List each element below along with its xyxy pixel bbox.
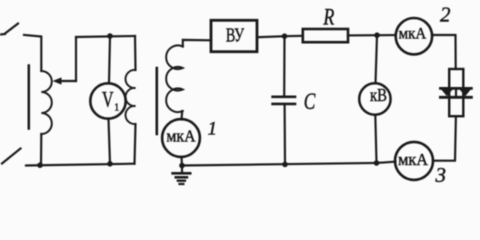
node B kilovoltmeter tap <box>374 32 380 38</box>
kilovoltmeter PV2 кВ <box>359 83 390 114</box>
svg-text:3: 3 <box>435 163 447 187</box>
wire voltmeter V1 top lead <box>109 36 110 83</box>
svg-text:кВ: кВ <box>370 85 387 105</box>
svg-text:C: C <box>304 89 316 114</box>
svg-text:V: V <box>102 87 114 112</box>
wire resistor to node B <box>348 34 377 36</box>
autotransformer wiper arrow <box>60 80 76 82</box>
svg-text:1: 1 <box>208 119 218 140</box>
wire node B to ammeter PA2 <box>377 34 396 36</box>
transformer T2 core bar <box>156 68 159 134</box>
node kilovoltmeter bottom <box>374 160 380 166</box>
wire from switch to autotransformer top <box>24 35 41 71</box>
svg-text:R: R <box>323 4 335 29</box>
switch S1 top blade <box>5 24 18 34</box>
wire kilovoltmeter bottom lead <box>375 115 376 163</box>
capacitor C top lead <box>283 36 285 96</box>
svg-text:мкА: мкА <box>398 150 428 169</box>
svg-text:мкА: мкА <box>166 126 195 145</box>
wire node A to resistor <box>285 35 303 38</box>
ground <box>181 166 183 173</box>
transformer T2 secondary winding <box>166 45 183 112</box>
node A capacitor tap <box>282 33 288 39</box>
svg-text:мкА: мкА <box>399 25 427 42</box>
node bottom of voltmeter branch <box>107 161 113 167</box>
wire wiper tap vertical <box>75 37 77 81</box>
voltmeter V1 <box>90 83 125 118</box>
capacitor C <box>273 96 295 99</box>
node autotransformer bottom <box>37 162 43 168</box>
wire ammeter PA1 to ground node <box>180 158 183 166</box>
node ground junction <box>179 163 185 169</box>
autotransformer T1 core bar <box>28 66 31 129</box>
microammeter PA1 <box>162 119 200 157</box>
wire primary top lead <box>134 36 137 70</box>
transformer T2 primary winding <box>125 70 135 124</box>
wire mains lead top-left <box>0 33 5 36</box>
rectifier unit U1 ВУ <box>211 20 257 51</box>
switch S1 bottom blade <box>2 149 21 164</box>
node top of voltmeter branch <box>107 33 113 39</box>
wire ammeter PA2 to arrester top <box>432 35 456 69</box>
wire autotransformer bottom tail <box>40 134 42 165</box>
wire bottom rail left section <box>26 164 135 166</box>
wire voltmeter V1 bottom lead <box>109 119 111 164</box>
autotransformer T1 winding <box>41 71 52 134</box>
svg-text:1: 1 <box>114 103 119 114</box>
wire bottom rail right section <box>182 163 377 166</box>
wire arrester bottom to ammeter PA3 <box>433 116 456 161</box>
svg-text:2: 2 <box>440 3 451 27</box>
svg-text:ВУ: ВУ <box>226 25 245 47</box>
wire kilovoltmeter top lead <box>376 35 378 83</box>
wire secondary top lead to rectifier <box>183 40 211 47</box>
wire rectifier to node A <box>257 36 285 37</box>
capacitor C bottom lead <box>284 104 287 164</box>
wire secondary bottom tail <box>180 111 183 120</box>
microammeter PA2 <box>396 18 432 54</box>
arrester FV1 body <box>449 69 463 116</box>
resistor R <box>303 29 348 42</box>
wire primary bottom tail <box>135 124 136 164</box>
microammeter PA3 <box>395 142 433 180</box>
wire V1 loop top rail <box>76 36 135 37</box>
node capacitor bottom <box>282 162 288 168</box>
arrester FV1 electrodes <box>440 87 471 90</box>
